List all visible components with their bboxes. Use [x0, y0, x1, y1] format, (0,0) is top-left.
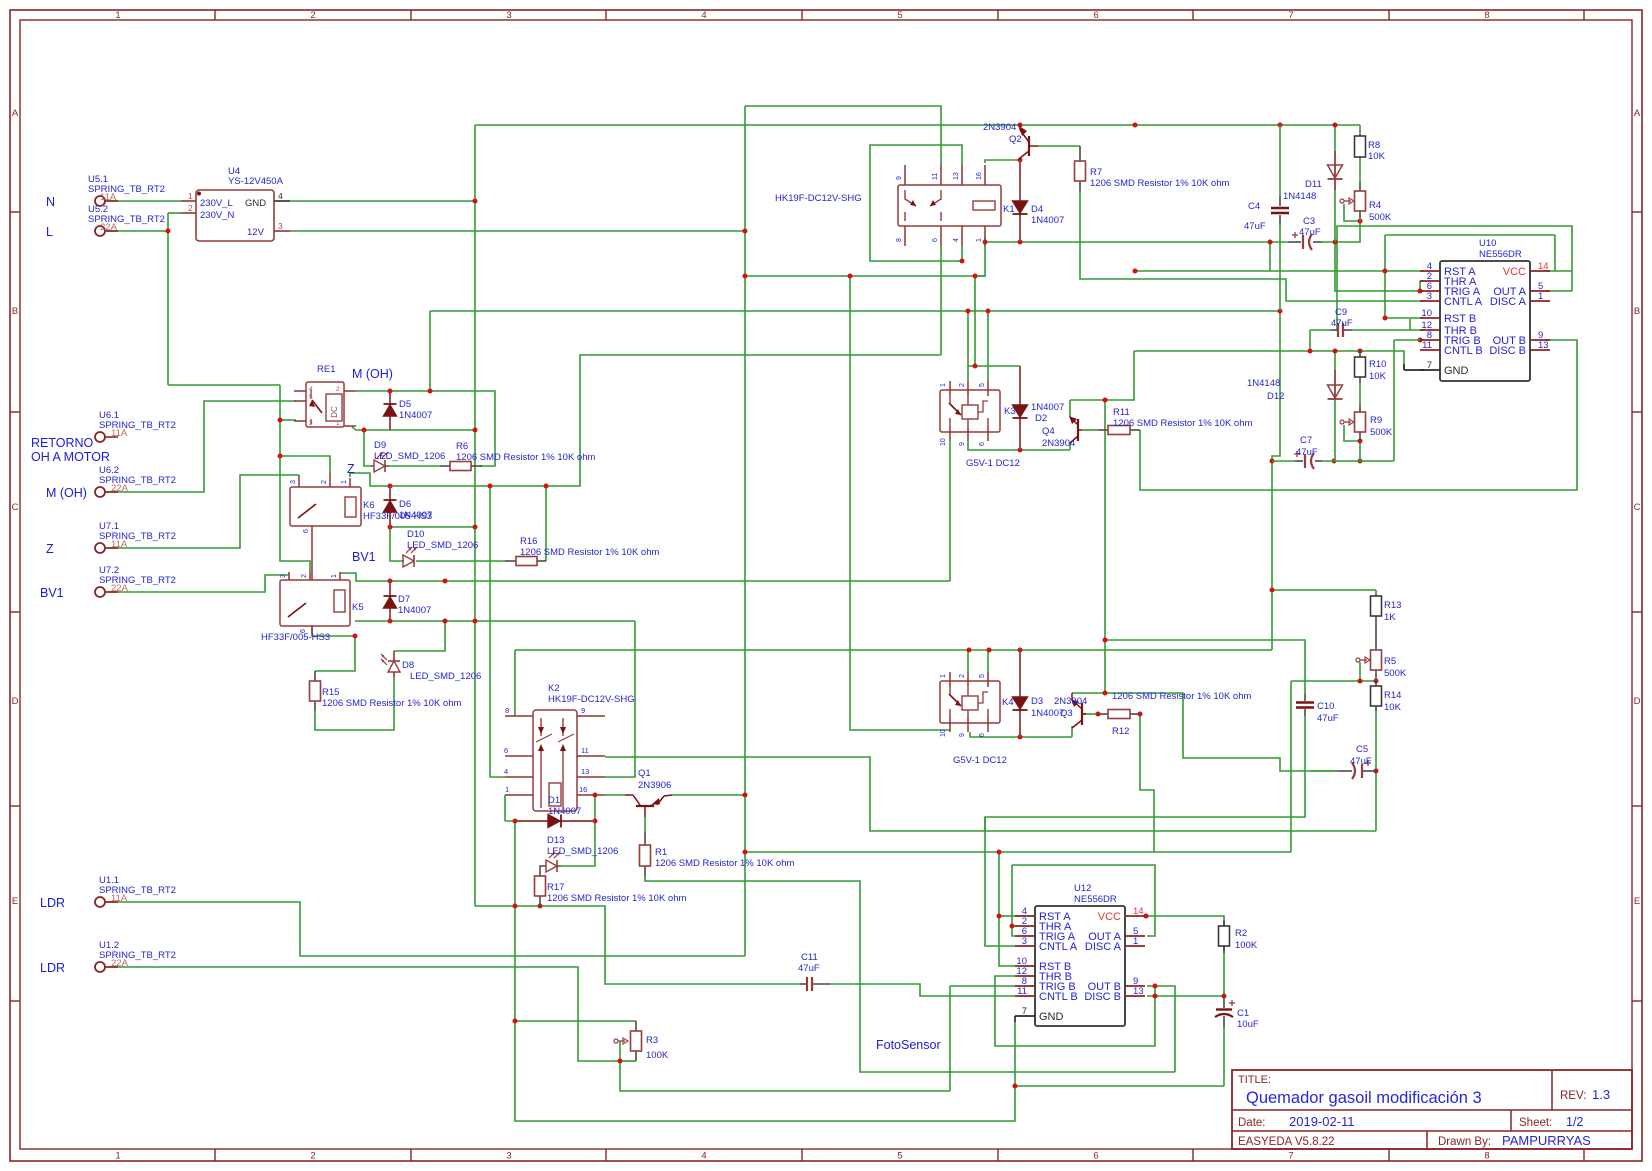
svg-text:500K: 500K — [1370, 427, 1393, 438]
svg-text:OH A MOTOR: OH A MOTOR — [31, 450, 110, 464]
svg-text:500K: 500K — [1384, 668, 1407, 679]
svg-text:11: 11 — [1422, 340, 1432, 351]
net label LDR 1 — [40, 896, 65, 910]
wire y276 — [745, 275, 985, 277]
wire R12 to LDR rail — [1140, 714, 1154, 852]
svg-text:3: 3 — [280, 574, 287, 578]
svg-text:Q3: Q3 — [1060, 708, 1073, 719]
svg-text:16: 16 — [579, 785, 587, 794]
net label N — [46, 195, 55, 209]
diode D7 1N4007 — [384, 581, 432, 621]
svg-text:LED_SMD_1206: LED_SMD_1206 — [407, 540, 478, 551]
wire K1 contact loop — [870, 145, 962, 261]
wire D8 to y621 — [394, 621, 445, 651]
wire R17 rail y906 — [475, 906, 800, 984]
svg-text:1: 1 — [940, 383, 947, 387]
wire R9 wiper — [1344, 425, 1360, 441]
wire RST A U12 — [999, 915, 1015, 917]
wire D1 riser — [594, 795, 596, 821]
wire K2 pin11 to C5 rail — [605, 757, 1376, 831]
wire L to junction — [107, 230, 168, 232]
wire x1105 — [1104, 400, 1106, 640]
svg-text:YS-12V450A: YS-12V450A — [228, 176, 284, 187]
svg-text:GND: GND — [245, 198, 266, 209]
svg-text:K1: K1 — [1003, 204, 1015, 215]
svg-text:1: 1 — [188, 191, 193, 201]
title block — [1232, 1070, 1632, 1149]
net label M (OH) — [46, 486, 87, 500]
svg-text:D1: D1 — [548, 795, 560, 806]
wire gnd x515 — [515, 821, 1015, 1121]
label G5V-1 DC12 K4 — [953, 755, 1007, 766]
terminal U1.1 — [95, 875, 176, 907]
potentiometer R4 — [1340, 182, 1392, 223]
wire Q4 collector — [1069, 443, 1071, 450]
label G5V-1 DC12 K3 — [966, 458, 1020, 469]
svg-text:10: 10 — [1421, 308, 1432, 319]
capacitor C1 — [1215, 996, 1259, 1030]
potentiometer R9 — [1340, 405, 1393, 441]
wire riser x430 — [429, 311, 431, 391]
svg-text:D5: D5 — [399, 399, 411, 410]
capacitor C11 — [798, 952, 830, 991]
svg-text:14: 14 — [1133, 906, 1144, 917]
svg-text:1206 SMD Resistor 1% 10K ohm: 1206 SMD Resistor 1% 10K ohm — [456, 452, 595, 463]
svg-text:Z: Z — [46, 542, 54, 556]
svg-text:D3: D3 — [1031, 696, 1043, 707]
wire THR-TRIG A tie — [1419, 281, 1421, 291]
svg-text:12V: 12V — [247, 227, 265, 238]
wire THR A stub link — [1420, 280, 1424, 282]
svg-text:230V_L: 230V_L — [200, 198, 233, 209]
wire R15 to D8 — [315, 677, 394, 730]
capacitor C9 — [1331, 307, 1353, 337]
svg-text:9: 9 — [581, 706, 585, 715]
wire R5 wiper — [1359, 662, 1361, 681]
net label L — [46, 225, 53, 239]
svg-text:1N4007: 1N4007 — [548, 806, 581, 817]
transistor Q3 2N3904 — [1054, 693, 1087, 728]
svg-text:C: C — [1634, 502, 1641, 513]
svg-text:2: 2 — [188, 203, 193, 213]
wire D11 net — [1334, 125, 1336, 151]
svg-text:1: 1 — [331, 574, 338, 578]
transistor Q2 2N3904 — [983, 122, 1038, 160]
svg-text:47uF: 47uF — [1331, 318, 1353, 329]
svg-text:D: D — [12, 696, 19, 707]
svg-text:1206 SMD Resistor 1% 10K ohm: 1206 SMD Resistor 1% 10K ohm — [322, 698, 461, 709]
wire U10 GND link — [1404, 364, 1424, 370]
svg-text:C9: C9 — [1335, 307, 1347, 318]
svg-text:D8: D8 — [402, 660, 414, 671]
svg-text:GND: GND — [1039, 1011, 1064, 1023]
svg-text:1N4007: 1N4007 — [399, 510, 432, 521]
capacitor C3 — [1288, 216, 1322, 250]
net label BV1 out — [352, 550, 376, 564]
wire R13 top feed — [1272, 589, 1376, 591]
svg-text:1: 1 — [976, 238, 983, 242]
svg-text:C: C — [12, 502, 19, 513]
wire rail x745 — [744, 106, 746, 956]
svg-text:2: 2 — [310, 1151, 315, 1162]
relay K1 — [896, 165, 1001, 246]
diode D11 1N4148 — [1283, 151, 1343, 202]
svg-text:3: 3 — [506, 10, 511, 21]
svg-text:22A: 22A — [111, 583, 129, 594]
wire K5 pin1 rail y581 — [340, 573, 950, 581]
wire wiper rail to LDR rail — [1290, 681, 1292, 852]
label K1 ref — [1003, 204, 1015, 215]
svg-text:4: 4 — [701, 10, 706, 21]
wire K4 pin5 riser — [987, 650, 989, 672]
svg-text:2: 2 — [959, 674, 966, 678]
resistor R10 — [1355, 351, 1387, 383]
wire riser x546 to R16 — [545, 486, 547, 561]
wire D13 to D1 node — [561, 821, 595, 866]
svg-text:VCC: VCC — [1098, 911, 1121, 923]
wire D6 bottom — [390, 526, 475, 528]
svg-text:2: 2 — [301, 574, 308, 578]
svg-text:7: 7 — [1288, 10, 1293, 21]
svg-text:2N3904: 2N3904 — [983, 122, 1016, 133]
svg-text:C10: C10 — [1317, 701, 1334, 712]
svg-text:REV:: REV: — [1560, 1090, 1586, 1102]
svg-text:230V_N: 230V_N — [200, 210, 234, 221]
svg-text:K4: K4 — [1002, 697, 1014, 708]
diode D3 1N4007 — [1013, 650, 1065, 737]
svg-text:G5V-1 DC12: G5V-1 DC12 — [966, 458, 1020, 469]
svg-text:R15: R15 — [322, 687, 339, 698]
wire C7 rail to R13 loop — [1271, 461, 1273, 650]
svg-text:4: 4 — [701, 1151, 706, 1162]
wire U4 GND to rail — [290, 200, 475, 202]
svg-text:DC: DC — [330, 406, 339, 418]
svg-text:2N3904: 2N3904 — [1042, 438, 1075, 449]
wire Z net K6 pin1 to K1 pin6 — [350, 355, 941, 486]
wire y640 to C10 — [1105, 640, 1305, 694]
svg-text:R13: R13 — [1384, 600, 1401, 611]
svg-text:GND: GND — [1444, 365, 1469, 377]
svg-text:22A: 22A — [100, 222, 118, 233]
wire K2 rail y650 — [515, 649, 1272, 651]
wire D9 to R6 — [389, 465, 440, 467]
svg-text:NE556DR: NE556DR — [1479, 249, 1522, 260]
svg-text:3: 3 — [1427, 291, 1432, 302]
wire RE1 pin2 out y391 — [356, 391, 495, 466]
net label RETORNO OH A MOTOR — [31, 436, 110, 464]
wire pin1 rail y242 — [985, 241, 1288, 243]
svg-text:10: 10 — [940, 729, 947, 737]
svg-text:R4: R4 — [1369, 200, 1381, 211]
svg-text:3: 3 — [290, 480, 297, 484]
svg-text:K5: K5 — [352, 602, 364, 613]
wire D11 bottom — [1334, 190, 1336, 242]
terminal U7.1 — [95, 521, 176, 553]
wire C9 left — [1310, 329, 1331, 331]
wire Q4 emitter riser — [1069, 400, 1071, 417]
resistor R14 — [1371, 681, 1402, 713]
led D13 LED_SMD_1206 — [540, 835, 618, 872]
diode D1 1N4007 — [515, 795, 595, 828]
wire R3 to TRIG B — [620, 1061, 950, 1091]
svg-text:1206 SMD Resistor 1% 10K ohm: 1206 SMD Resistor 1% 10K ohm — [1112, 691, 1251, 702]
svg-text:3: 3 — [506, 1151, 511, 1162]
svg-text:RE1: RE1 — [317, 364, 335, 375]
wire Q2 base to R7 — [1038, 145, 1080, 147]
wire TRIG B riser U12 — [949, 986, 951, 1091]
wire R10 R9 link — [1359, 383, 1361, 405]
svg-text:C7: C7 — [1300, 435, 1312, 446]
svg-text:C11: C11 — [801, 952, 818, 963]
led D8 LED_SMD_1206 — [381, 651, 481, 682]
power module U4 — [181, 166, 290, 241]
wire RE1 pin1 out y430 — [352, 427, 475, 430]
wire K4 pin10 from y276 — [850, 276, 950, 730]
svg-text:C5: C5 — [1356, 744, 1368, 755]
svg-text:11A: 11A — [111, 539, 128, 550]
svg-text:4: 4 — [953, 238, 960, 242]
svg-text:7: 7 — [1022, 1006, 1027, 1017]
svg-text:M (OH): M (OH) — [352, 367, 393, 381]
svg-text:22A: 22A — [111, 958, 129, 969]
led D10 LED_SMD_1206 — [403, 529, 478, 567]
svg-text:R10: R10 — [1369, 359, 1386, 370]
svg-text:1: 1 — [1133, 936, 1138, 947]
ic U10 NE556DR — [1420, 238, 1550, 381]
terminal U5.1 — [88, 174, 165, 206]
svg-text:CNTL A: CNTL A — [1039, 941, 1078, 953]
wire rail x475 — [474, 125, 476, 906]
svg-text:11: 11 — [581, 746, 589, 755]
svg-text:LDR: LDR — [40, 896, 65, 910]
transistor Q1 2N3906 — [625, 768, 672, 817]
svg-text:DISC A: DISC A — [1085, 941, 1122, 953]
svg-text:EASYEDA V5.8.22: EASYEDA V5.8.22 — [1238, 1136, 1335, 1148]
wire C3 right to R4 — [1322, 221, 1360, 242]
capacitor C5 — [1338, 744, 1376, 779]
wire OUT A U12 loop — [1012, 865, 1155, 936]
svg-text:D: D — [1634, 696, 1641, 707]
potentiometer R5 — [1356, 650, 1407, 681]
svg-text:D2: D2 — [1035, 413, 1047, 424]
svg-text:B: B — [1634, 306, 1640, 317]
svg-text:D9: D9 — [374, 440, 386, 451]
diode D4 1N4007 — [1013, 160, 1065, 242]
wire Q3 emitter riser — [1071, 726, 1073, 737]
svg-text:2019-02-11: 2019-02-11 — [1289, 1114, 1355, 1129]
svg-text:47uF: 47uF — [1296, 447, 1318, 458]
wire C11 to CNTL B — [830, 984, 1015, 996]
wire TRIG B — [950, 985, 1015, 987]
svg-text:14: 14 — [1538, 261, 1549, 272]
wire K1 pin1 net — [975, 237, 985, 366]
wire C1 bottom — [1223, 1025, 1225, 1086]
net label FotoSensor — [876, 1038, 941, 1052]
svg-text:47uF: 47uF — [1244, 221, 1266, 232]
svg-text:1N4148: 1N4148 — [1283, 191, 1316, 202]
svg-text:11: 11 — [1017, 986, 1027, 997]
svg-text:R2: R2 — [1235, 928, 1247, 939]
svg-text:9: 9 — [959, 442, 966, 446]
svg-text:R12: R12 — [1112, 726, 1129, 737]
svg-text:Q4: Q4 — [1042, 426, 1055, 437]
wire y226 loop — [1337, 226, 1572, 330]
wire x1105 low — [1104, 640, 1106, 695]
wire C4 bottom — [1279, 225, 1281, 311]
wire K3 pin9 to Q4 — [968, 441, 1070, 450]
wire R3 wiper — [619, 1041, 621, 1061]
relay K4 — [940, 672, 1000, 737]
diode D2 1N4007 — [1013, 366, 1065, 450]
svg-text:8: 8 — [505, 706, 509, 715]
label K2 — [548, 683, 635, 705]
wire VCC riser — [1554, 235, 1556, 271]
wire Q4 base — [1082, 429, 1098, 431]
wire K2 pin13 — [605, 621, 635, 777]
wire y461 rail left — [1272, 460, 1295, 462]
ic U12 NE556DR — [1015, 883, 1145, 1026]
wire VCC U12 to R2 — [1147, 916, 1224, 926]
svg-text:6: 6 — [303, 529, 310, 533]
wire R4 out — [1359, 218, 1361, 221]
wire RST B riser — [1385, 235, 1424, 318]
svg-text:CNTL A: CNTL A — [1444, 296, 1483, 308]
svg-text:7: 7 — [1427, 360, 1432, 371]
svg-text:4: 4 — [309, 386, 313, 393]
capacitor C10 — [1296, 694, 1339, 724]
svg-text:E: E — [12, 896, 18, 907]
relay K5 — [261, 572, 364, 643]
label K4 — [1002, 697, 1014, 708]
wire THR-TRIG A U12 tie — [1012, 926, 1015, 936]
wire RST net U12 — [745, 851, 1291, 853]
svg-text:10uF: 10uF — [1237, 1019, 1259, 1030]
svg-text:2: 2 — [336, 386, 340, 393]
svg-text:5: 5 — [897, 10, 902, 21]
wire D9 feed — [364, 430, 371, 466]
svg-text:VCC: VCC — [1503, 266, 1526, 278]
wire Q3 collector to C5 — [1072, 692, 1105, 694]
svg-text:1: 1 — [1538, 291, 1543, 302]
svg-text:LDR: LDR — [40, 961, 65, 975]
wire BV1 from U7.2 to K5 pin3 — [107, 575, 289, 592]
wire THR-TRIG A U12 riser — [1012, 865, 1015, 926]
wire OUT A U10 — [1546, 290, 1572, 292]
wire K2pin11 x985 overlap — [984, 817, 986, 831]
svg-text:8: 8 — [1484, 1151, 1489, 1162]
wire Q3 emitter — [970, 732, 1072, 737]
svg-text:Drawn By:: Drawn By: — [1438, 1136, 1491, 1148]
svg-text:HK19F-DC12V-SHG: HK19F-DC12V-SHG — [775, 193, 862, 204]
wire TRIG B riser — [1393, 340, 1395, 461]
wire VCC stub — [1546, 270, 1572, 272]
svg-text:LED_SMD_1206: LED_SMD_1206 — [374, 451, 445, 462]
svg-text:K2: K2 — [548, 683, 560, 694]
svg-text:10K: 10K — [1368, 151, 1386, 162]
wire R16 left — [416, 560, 505, 562]
wire Q3 collector run — [1105, 693, 1338, 771]
wire L net to RE1 column — [168, 384, 280, 386]
label K3 pre — [1004, 406, 1016, 417]
terminal U7.2 — [95, 565, 176, 597]
wire RSTB-THRB link — [1409, 319, 1411, 330]
wire LDR U1.2 — [107, 967, 620, 1061]
svg-text:Sheet:: Sheet: — [1519, 1117, 1552, 1129]
resistor R13 — [1371, 594, 1402, 650]
svg-text:D6: D6 — [399, 499, 411, 510]
svg-text:6: 6 — [1093, 10, 1098, 21]
svg-text:B: B — [12, 306, 18, 317]
wire R9 bottom — [1359, 441, 1361, 461]
svg-text:BV1: BV1 — [352, 550, 376, 564]
terminal U5.2 — [88, 204, 165, 236]
svg-text:D7: D7 — [398, 594, 410, 605]
wire Z from U7.1 to K6 pin3 — [107, 475, 299, 548]
wire K1 pin6 riser — [940, 246, 942, 355]
svg-text:8: 8 — [1484, 10, 1489, 21]
svg-text:5: 5 — [979, 674, 986, 678]
svg-text:3: 3 — [309, 420, 313, 427]
svg-text:C1: C1 — [1237, 1008, 1249, 1019]
junction dot K1 loop — [960, 158, 1388, 444]
svg-text:1N4007: 1N4007 — [1031, 215, 1064, 226]
svg-text:1: 1 — [940, 674, 947, 678]
svg-text:10K: 10K — [1369, 371, 1387, 382]
wire to U4 pin2 — [168, 212, 181, 214]
wire K2 pin16 to Q1 base — [605, 794, 625, 796]
resistor R17 — [535, 871, 687, 906]
terminal U1.2 — [95, 940, 176, 972]
wire TRIG A to D11 rail — [1335, 242, 1424, 291]
svg-text:BV1: BV1 — [40, 586, 64, 600]
svg-text:NE556DR: NE556DR — [1074, 894, 1117, 905]
wire C9 drop — [1309, 330, 1311, 351]
svg-text:6: 6 — [932, 238, 939, 242]
svg-text:11A: 11A — [100, 192, 117, 203]
potentiometer R3 — [614, 1021, 669, 1061]
wire R4 wiper — [1344, 204, 1360, 221]
wire U12 GND link — [1014, 1016, 1016, 1022]
svg-text:CNTL B: CNTL B — [1444, 345, 1483, 357]
wire bus y311 to C7 rail — [1272, 311, 1280, 461]
svg-text:1: 1 — [505, 785, 509, 794]
svg-text:47uF: 47uF — [1299, 227, 1321, 238]
wire K6 pin2 — [280, 456, 330, 473]
relay K2 — [504, 706, 605, 811]
resistor R16 — [505, 536, 659, 566]
svg-text:R17: R17 — [547, 882, 564, 893]
svg-text:G5V-1 DC12: G5V-1 DC12 — [953, 755, 1007, 766]
svg-text:3: 3 — [1022, 936, 1027, 947]
wire RE1 pin5 M(OH) — [107, 401, 296, 492]
svg-text:DISC B: DISC B — [1489, 345, 1526, 357]
svg-text:100K: 100K — [646, 1050, 669, 1061]
svg-text:PAMPURRYAS: PAMPURRYAS — [1502, 1133, 1591, 1148]
wire C9 right to THR B — [1352, 329, 1424, 331]
svg-text:DISC A: DISC A — [1490, 296, 1527, 308]
svg-text:500K: 500K — [1369, 212, 1392, 223]
svg-text:1206 SMD Resistor 1% 10K ohm: 1206 SMD Resistor 1% 10K ohm — [1113, 418, 1252, 429]
wire y621 — [355, 620, 635, 622]
wire R8 R4 link — [1359, 158, 1361, 182]
wire K5 pin6 — [312, 634, 355, 671]
svg-text:47uF: 47uF — [1350, 756, 1372, 767]
svg-text:R6: R6 — [456, 441, 468, 452]
svg-text:10K: 10K — [1384, 702, 1402, 713]
capacitor C4 — [1244, 196, 1289, 232]
svg-text:Date:: Date: — [1238, 1117, 1266, 1129]
wire U12 GND drop — [1014, 1021, 1016, 1086]
